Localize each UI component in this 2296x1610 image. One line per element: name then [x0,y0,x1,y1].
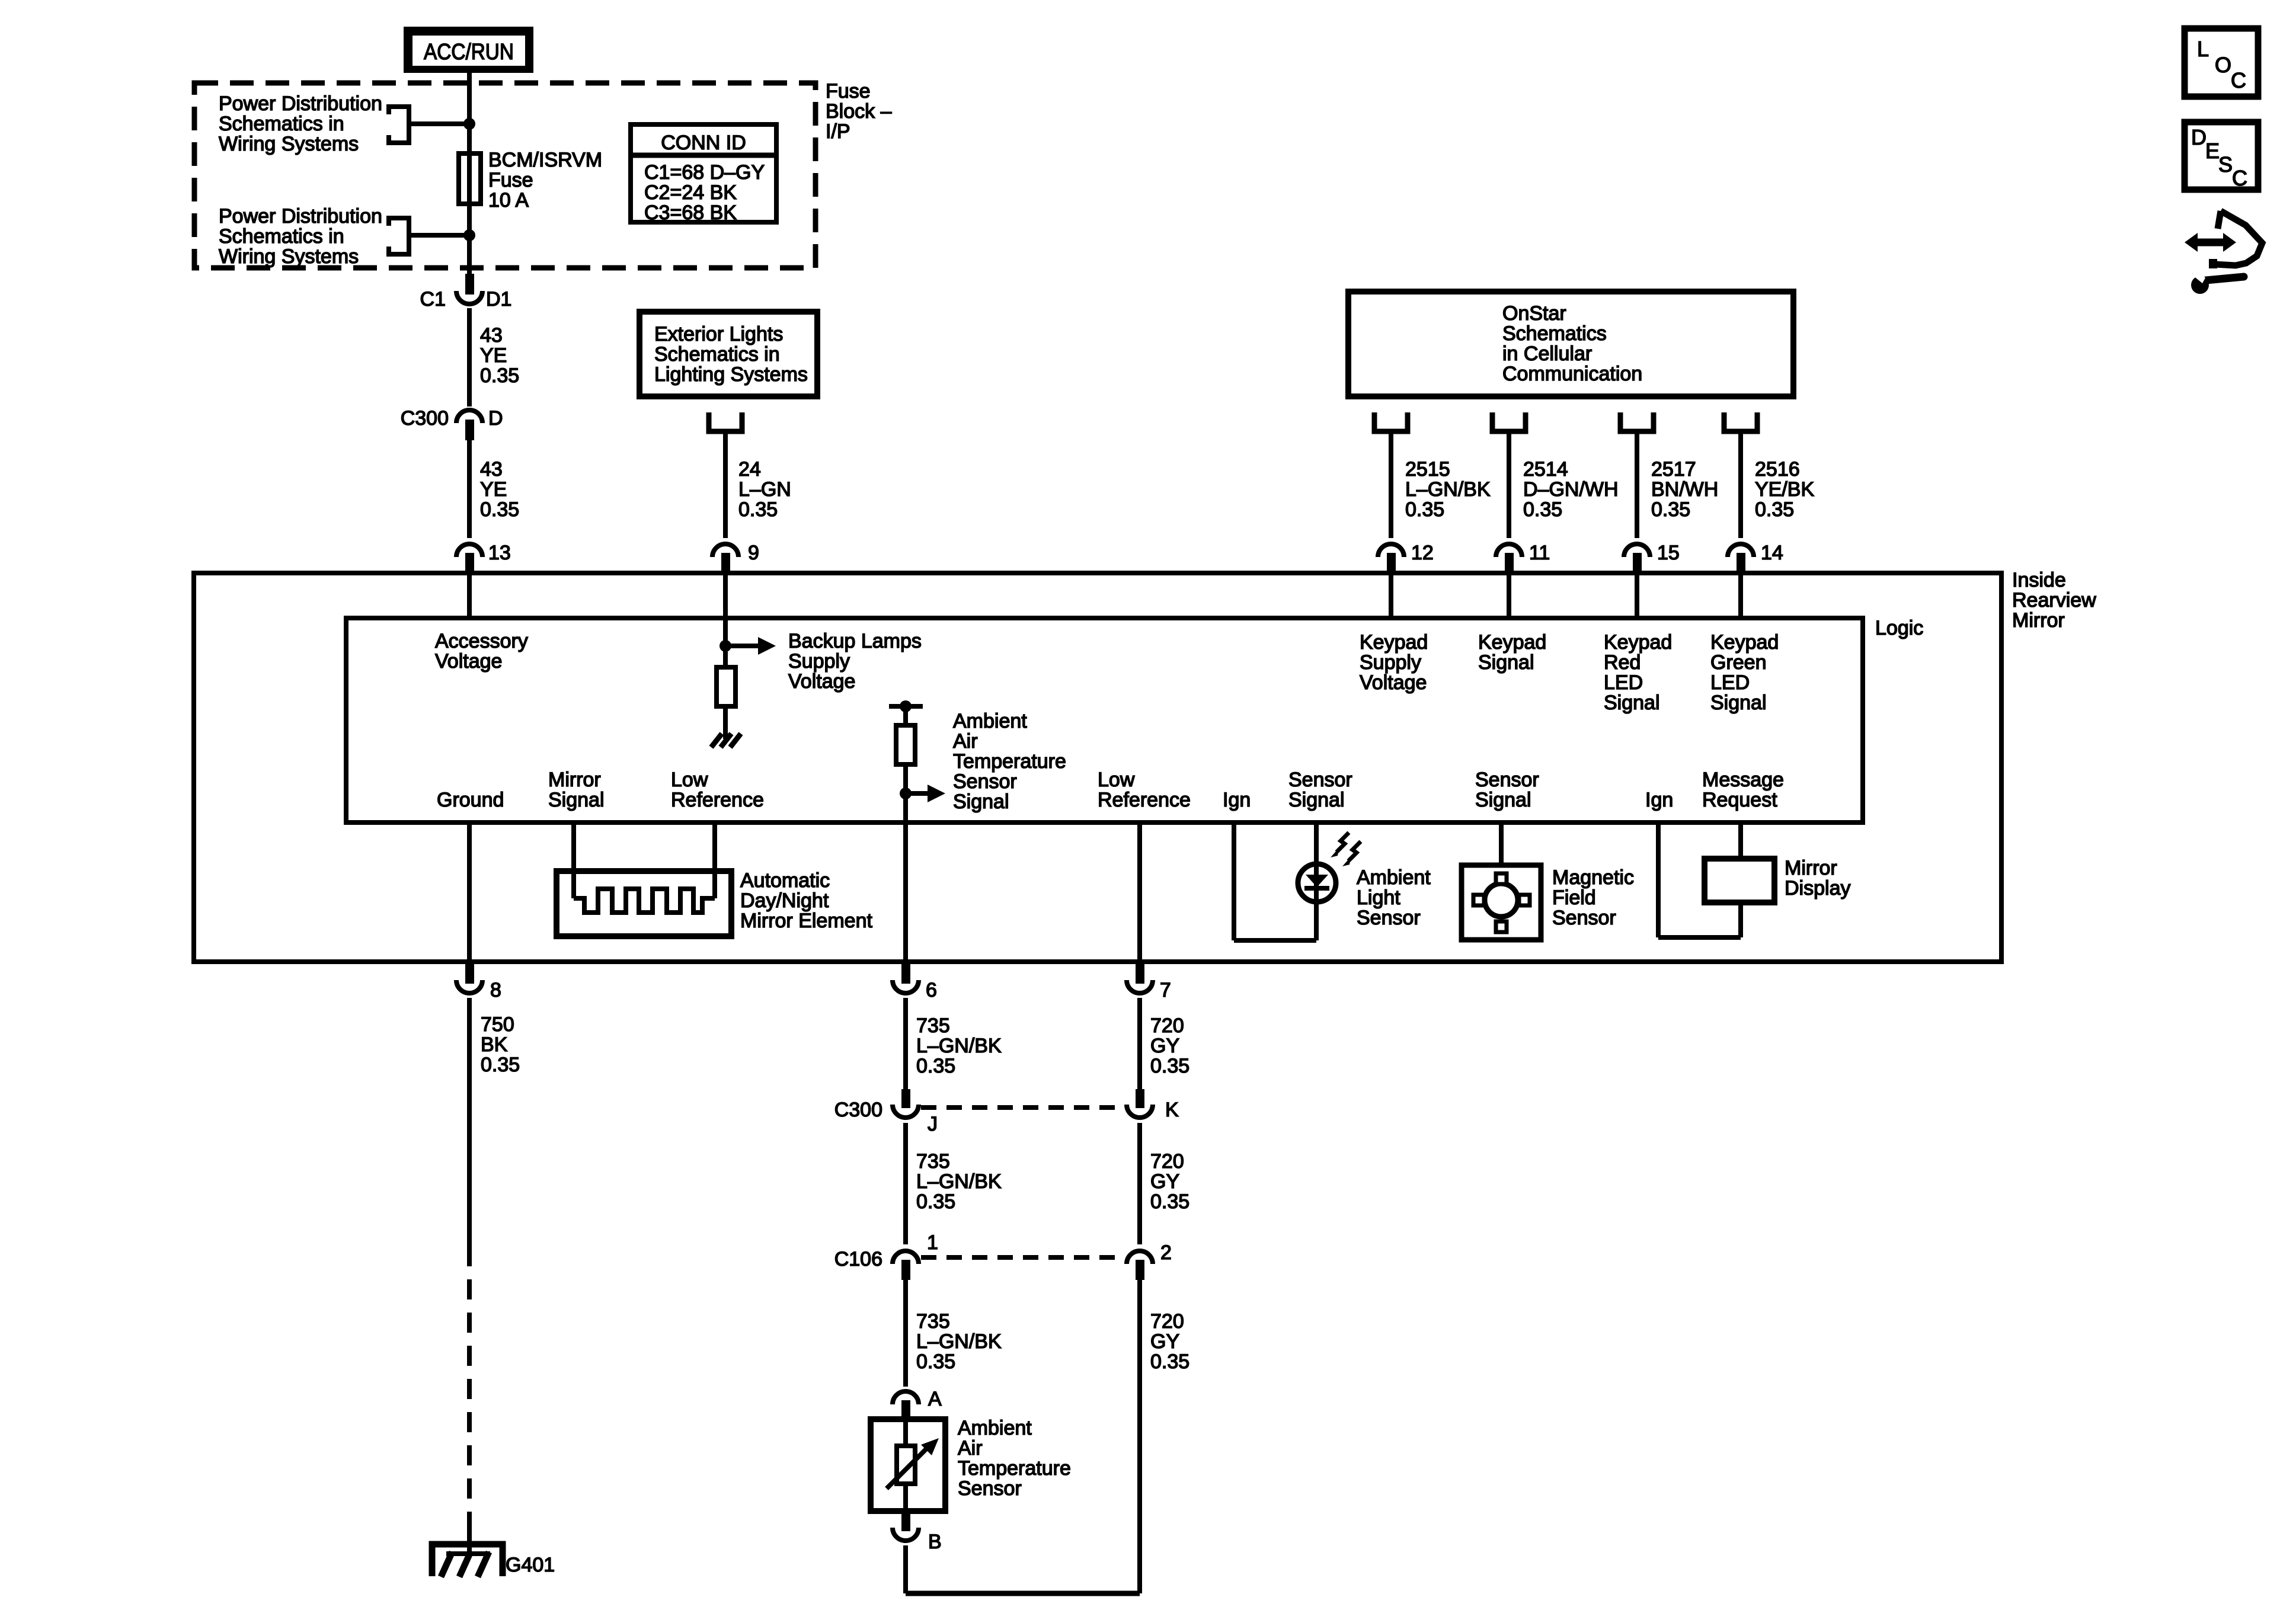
off-page bracket OnStar wire 2517 [1620,412,1654,431]
svg-text:0.35: 0.35 [1150,1055,1189,1077]
arrow Backup Lamps [731,644,758,648]
svg-text:YE: YE [480,478,507,501]
wire 24 L-GN [723,434,728,538]
svg-text:Ign: Ign [1645,789,1673,811]
wire 2516 YE/BK [1738,434,1743,538]
svg-text:2: 2 [1160,1241,1172,1264]
svg-text:Light: Light [1357,886,1400,909]
svg-text:Voltage: Voltage [435,650,502,673]
svg-text:Signal: Signal [1478,651,1534,674]
svg-text:Low: Low [1098,769,1135,791]
svg-text:Signal: Signal [953,790,1009,813]
svg-text:Communication: Communication [1502,363,1642,385]
svg-text:Fuse: Fuse [488,169,533,191]
svg-text:735: 735 [916,1310,950,1333]
svg-text:Power Distribution: Power Distribution [219,92,382,115]
svg-text:Lighting Systems: Lighting Systems [654,363,808,386]
svg-text:C1: C1 [420,288,446,311]
ambient temp pull-up: T bar [889,704,923,709]
wire 2514 D&#8211;GN/WH [1507,434,1511,538]
svg-text:A: A [928,1388,942,1410]
svg-text:BK: BK [481,1033,508,1056]
shift/swap + wrench icon [2195,239,2225,247]
svg-text:Logic: Logic [1875,617,1923,639]
internal ground (logic) [711,734,722,747]
svg-text:735: 735 [916,1150,950,1173]
magnetic field sensor box [1462,865,1541,940]
svg-text:Sensor: Sensor [1288,769,1352,791]
wire sensor signal (2) [1499,822,1504,865]
off-page bracket (bottom) [389,218,409,254]
light arrows [1336,833,1349,852]
wire bracket to node [409,233,469,238]
arrow Sensor Signal [911,791,928,796]
svg-text:Schematics in: Schematics in [219,225,344,248]
svg-text:in Cellular: in Cellular [1502,343,1592,365]
wire sensor signal to LED [1314,822,1319,940]
mirror pin 13 [456,544,482,557]
connector C300 pin J [901,1089,910,1108]
ambient light sensor LED circle [1298,864,1336,902]
svg-text:1: 1 [927,1231,938,1254]
svg-text:Keypad: Keypad [1360,631,1428,654]
svg-text:Sensor: Sensor [958,1477,1022,1500]
svg-text:0.35: 0.35 [916,1190,955,1213]
svg-text:J: J [928,1113,938,1135]
LOC icon box [2185,28,2258,97]
svg-text:Schematics in: Schematics in [654,343,780,366]
svg-text:BCM/ISRVM: BCM/ISRVM [488,149,602,171]
svg-text:Signal: Signal [1475,789,1531,811]
off-page bracket (top) [389,107,409,143]
svg-text:CONN ID: CONN ID [661,132,746,154]
svg-text:C2=24 BK: C2=24 BK [644,181,737,204]
svg-text:Wiring Systems: Wiring Systems [219,133,359,155]
svg-text:Signal: Signal [1288,789,1345,811]
svg-text:C300: C300 [401,407,449,430]
svg-text:C106: C106 [834,1248,882,1270]
svg-text:Message: Message [1702,769,1784,791]
svg-text:GY: GY [1150,1330,1179,1353]
svg-text:750: 750 [481,1013,514,1036]
svg-text:13: 13 [488,542,511,564]
svg-text:G401: G401 [506,1554,555,1576]
svg-text:2515: 2515 [1405,458,1450,481]
svg-text:14: 14 [1761,542,1783,564]
svg-text:Temperature: Temperature [958,1457,1071,1480]
svg-text:O: O [2215,53,2231,77]
off-page bracket OnStar wire 2516 [1724,412,1757,431]
svg-text:Ambient: Ambient [953,710,1027,732]
svg-text:Red: Red [1604,651,1641,674]
mirror pin 14 [1728,544,1754,557]
svg-text:6: 6 [926,979,937,1001]
wire through resistor [903,706,908,793]
mirror display box [1705,859,1774,902]
svg-text:L–GN/BK: L–GN/BK [916,1330,1002,1353]
svg-text:Sensor: Sensor [953,770,1017,793]
connector C106 pin 2 [1127,1251,1153,1264]
mirror pin 12 [1378,544,1404,557]
connector C1 pin D1 [465,274,474,295]
svg-text:ACC/RUN: ACC/RUN [424,40,514,65]
resistor (internal, backup lamps) [723,646,728,735]
C300 mating dashes [921,1105,1124,1110]
wire 2515 L&#8211;GN/BK [1389,434,1393,538]
svg-text:720: 720 [1150,1150,1184,1173]
ground G401 [432,1544,503,1576]
svg-text:Voltage: Voltage [1360,671,1427,694]
svg-text:Ambient: Ambient [1357,866,1431,889]
svg-text:720: 720 [1150,1014,1184,1037]
svg-text:720: 720 [1150,1310,1184,1333]
fuse BCM/ISRVM 10A [467,155,472,276]
svg-text:0.35: 0.35 [1755,498,1794,521]
off-page bracket OnStar wire 2515 [1374,412,1408,431]
svg-text:Rearview: Rearview [2012,589,2096,612]
svg-text:Exterior Lights: Exterior Lights [654,323,783,345]
svg-text:Signal: Signal [1710,692,1767,714]
box OnStar Schematics [1348,292,1793,396]
svg-text:Temperature: Temperature [953,750,1066,773]
svg-text:2516: 2516 [1755,458,1800,481]
svg-text:C3=68 BK: C3=68 BK [644,201,737,224]
svg-text:Signal: Signal [1604,692,1660,714]
connector C106 pin 1 [893,1251,919,1264]
wire Ign (2) [1656,822,1661,937]
off-page bracket OnStar wire 2514 [1492,412,1526,431]
svg-text:Fuse: Fuse [826,80,871,103]
svg-text:D1: D1 [486,288,511,311]
svg-text:Ign: Ign [1223,789,1251,811]
wire bracket to node [409,121,469,126]
svg-text:I/P: I/P [826,120,850,143]
wire message request [1738,822,1743,859]
svg-text:D–GN/WH: D–GN/WH [1523,478,1619,501]
svg-text:Power Distribution: Power Distribution [219,205,382,228]
mirror element resistive comb [574,889,715,913]
svg-text:Keypad: Keypad [1478,631,1546,654]
svg-text:Magnetic: Magnetic [1552,866,1634,889]
svg-text:Supply: Supply [788,650,850,673]
svg-text:C1=68 D–GY: C1=68 D–GY [644,161,765,184]
sensor circle [1485,884,1518,917]
svg-text:12: 12 [1411,542,1434,564]
svg-text:D: D [488,407,503,430]
svg-text:LED: LED [1604,671,1643,694]
svg-text:Voltage: Voltage [788,670,855,693]
DESC icon box [2185,122,2258,190]
pin 7 [1136,962,1144,984]
svg-text:Signal: Signal [548,789,605,811]
connector C300 pin K [1136,1089,1144,1108]
resistor (internal, ambient temp) [896,725,915,764]
loop wire to pin 2 [903,1545,908,1593]
svg-text:2517: 2517 [1651,458,1696,481]
svg-text:Reference: Reference [671,789,764,811]
svg-text:Air: Air [958,1437,983,1459]
svg-text:Mirror: Mirror [2012,609,2065,632]
svg-text:S: S [2218,152,2233,177]
svg-text:L–GN/BK: L–GN/BK [1405,478,1491,501]
svg-text:E: E [2205,139,2220,163]
off-page bracket below box [709,412,742,431]
svg-text:Day/Night: Day/Night [740,889,829,912]
svg-text:24: 24 [738,458,761,481]
wire mirror signal [571,822,576,898]
ambient air temperature sensor box [903,1420,908,1511]
junction node (top) [463,118,475,130]
svg-text:0.35: 0.35 [916,1350,955,1373]
svg-text:GY: GY [1150,1170,1179,1193]
svg-text:GY: GY [1150,1035,1179,1057]
svg-text:YE: YE [480,344,507,367]
wire 750 BK dashed [467,1279,472,1525]
connector pin B [901,1511,910,1531]
svg-text:15: 15 [1657,542,1680,564]
svg-text:B: B [928,1531,942,1553]
mirror pin 11 [1496,544,1522,557]
CONN ID table [631,124,776,222]
svg-text:Keypad: Keypad [1604,631,1672,654]
svg-text:Reference: Reference [1098,789,1191,811]
fuse block dashed outline (Fuse Block - I/P) [194,83,816,268]
svg-text:43: 43 [480,324,503,347]
svg-text:L–GN/BK: L–GN/BK [916,1035,1002,1057]
mirror pin 9 [712,544,738,557]
svg-text:0.35: 0.35 [1150,1350,1189,1373]
thermistor arrow [887,1448,927,1489]
wire ACC/RUN to fuse [467,73,472,155]
svg-text:BN/WH: BN/WH [1651,478,1718,501]
svg-text:Request: Request [1702,789,1777,811]
ground wire pin 8 [467,822,472,962]
box Logic [346,618,1863,822]
svg-text:0.35: 0.35 [1405,498,1444,521]
svg-text:Sensor: Sensor [1357,907,1421,929]
pin 6 [901,962,910,984]
svg-text:Block –: Block – [826,100,892,123]
svg-text:L–GN/BK: L–GN/BK [916,1170,1002,1193]
svg-text:Ground: Ground [437,789,504,811]
box Inside Rearview Mirror [194,573,2001,962]
svg-text:Mirror Element: Mirror Element [740,910,872,932]
box Exterior Lights Schematics [639,312,817,396]
low reference wire to pin 7 [1137,822,1142,962]
wire 750 BK solid [467,998,472,1266]
wires keypad pins to logic [1389,574,1393,618]
svg-text:43: 43 [480,458,503,481]
svg-text:C: C [2231,68,2246,92]
connector pin A [893,1391,919,1404]
svg-text:11: 11 [1529,542,1550,564]
LED triangle [1306,875,1328,887]
svg-text:L–GN: L–GN [738,478,791,501]
svg-text:Mirror: Mirror [1785,857,1837,879]
svg-text:0.35: 0.35 [481,1054,520,1076]
svg-text:Mirror: Mirror [548,769,601,791]
svg-text:0.35: 0.35 [1150,1190,1189,1213]
svg-text:Sensor: Sensor [1552,907,1616,929]
wire down to pin 6 [903,793,908,962]
wire Ign (1) [1232,822,1236,940]
junction node sensor signal [900,788,912,799]
svg-text:0.35: 0.35 [738,498,778,521]
svg-text:Schematics: Schematics [1502,322,1607,345]
svg-text:9: 9 [748,542,759,564]
svg-text:0.35: 0.35 [1651,498,1690,521]
svg-text:Automatic: Automatic [740,869,830,892]
svg-text:Air: Air [953,730,978,753]
svg-text:L: L [2197,37,2209,61]
svg-text:Low: Low [671,769,708,791]
svg-text:C: C [2232,166,2247,190]
mirror pin 15 [1624,544,1650,557]
svg-text:Ambient: Ambient [958,1417,1032,1439]
LED cathode bar [1304,886,1329,891]
wire 43 YE (lower) [467,440,472,538]
svg-text:Schematics in: Schematics in [219,113,344,135]
svg-text:C300: C300 [834,1099,882,1121]
svg-text:D: D [2191,125,2207,149]
C106 mating dashes [921,1255,1124,1260]
junction node (bottom) [463,229,475,241]
thermistor rect [897,1446,915,1484]
svg-text:Inside: Inside [2012,569,2066,591]
svg-text:2514: 2514 [1523,458,1568,481]
wire 2517 BN/WH [1635,434,1639,538]
pin 8 [465,962,474,984]
svg-text:Wiring Systems: Wiring Systems [219,245,359,268]
svg-text:Field: Field [1552,886,1596,909]
wire low reference (1) [712,822,717,898]
svg-text:YE/BK: YE/BK [1755,478,1814,501]
wire 43 YE [467,308,472,406]
backup lamps branch wire [723,618,728,670]
svg-text:Sensor: Sensor [1475,769,1539,791]
svg-text:Accessory: Accessory [435,630,528,652]
sensor contacts [1496,873,1507,884]
svg-text:0.35: 0.35 [480,498,519,521]
svg-text:7: 7 [1160,979,1171,1001]
svg-text:0.35: 0.35 [916,1055,955,1077]
svg-text:Backup Lamps: Backup Lamps [788,630,922,652]
svg-text:Keypad: Keypad [1710,631,1779,654]
svg-text:0.35: 0.35 [1523,498,1562,521]
svg-text:Supply: Supply [1360,651,1421,674]
svg-text:LED: LED [1710,671,1750,694]
svg-text:8: 8 [490,979,501,1001]
power symbol ACC/RUN [404,27,533,73]
wire pin9 to logic [723,574,728,618]
svg-text:Green: Green [1710,651,1767,674]
svg-text:K: K [1165,1099,1179,1121]
svg-text:0.35: 0.35 [480,364,519,387]
svg-text:Display: Display [1785,877,1850,900]
automatic day/night mirror element box [557,871,731,936]
svg-text:735: 735 [916,1014,950,1037]
svg-text:OnStar: OnStar [1502,302,1566,325]
connector C300 pin D [456,410,482,423]
wire pin13 to logic (Accessory Voltage) [467,574,472,618]
svg-text:10 A: 10 A [488,189,529,212]
